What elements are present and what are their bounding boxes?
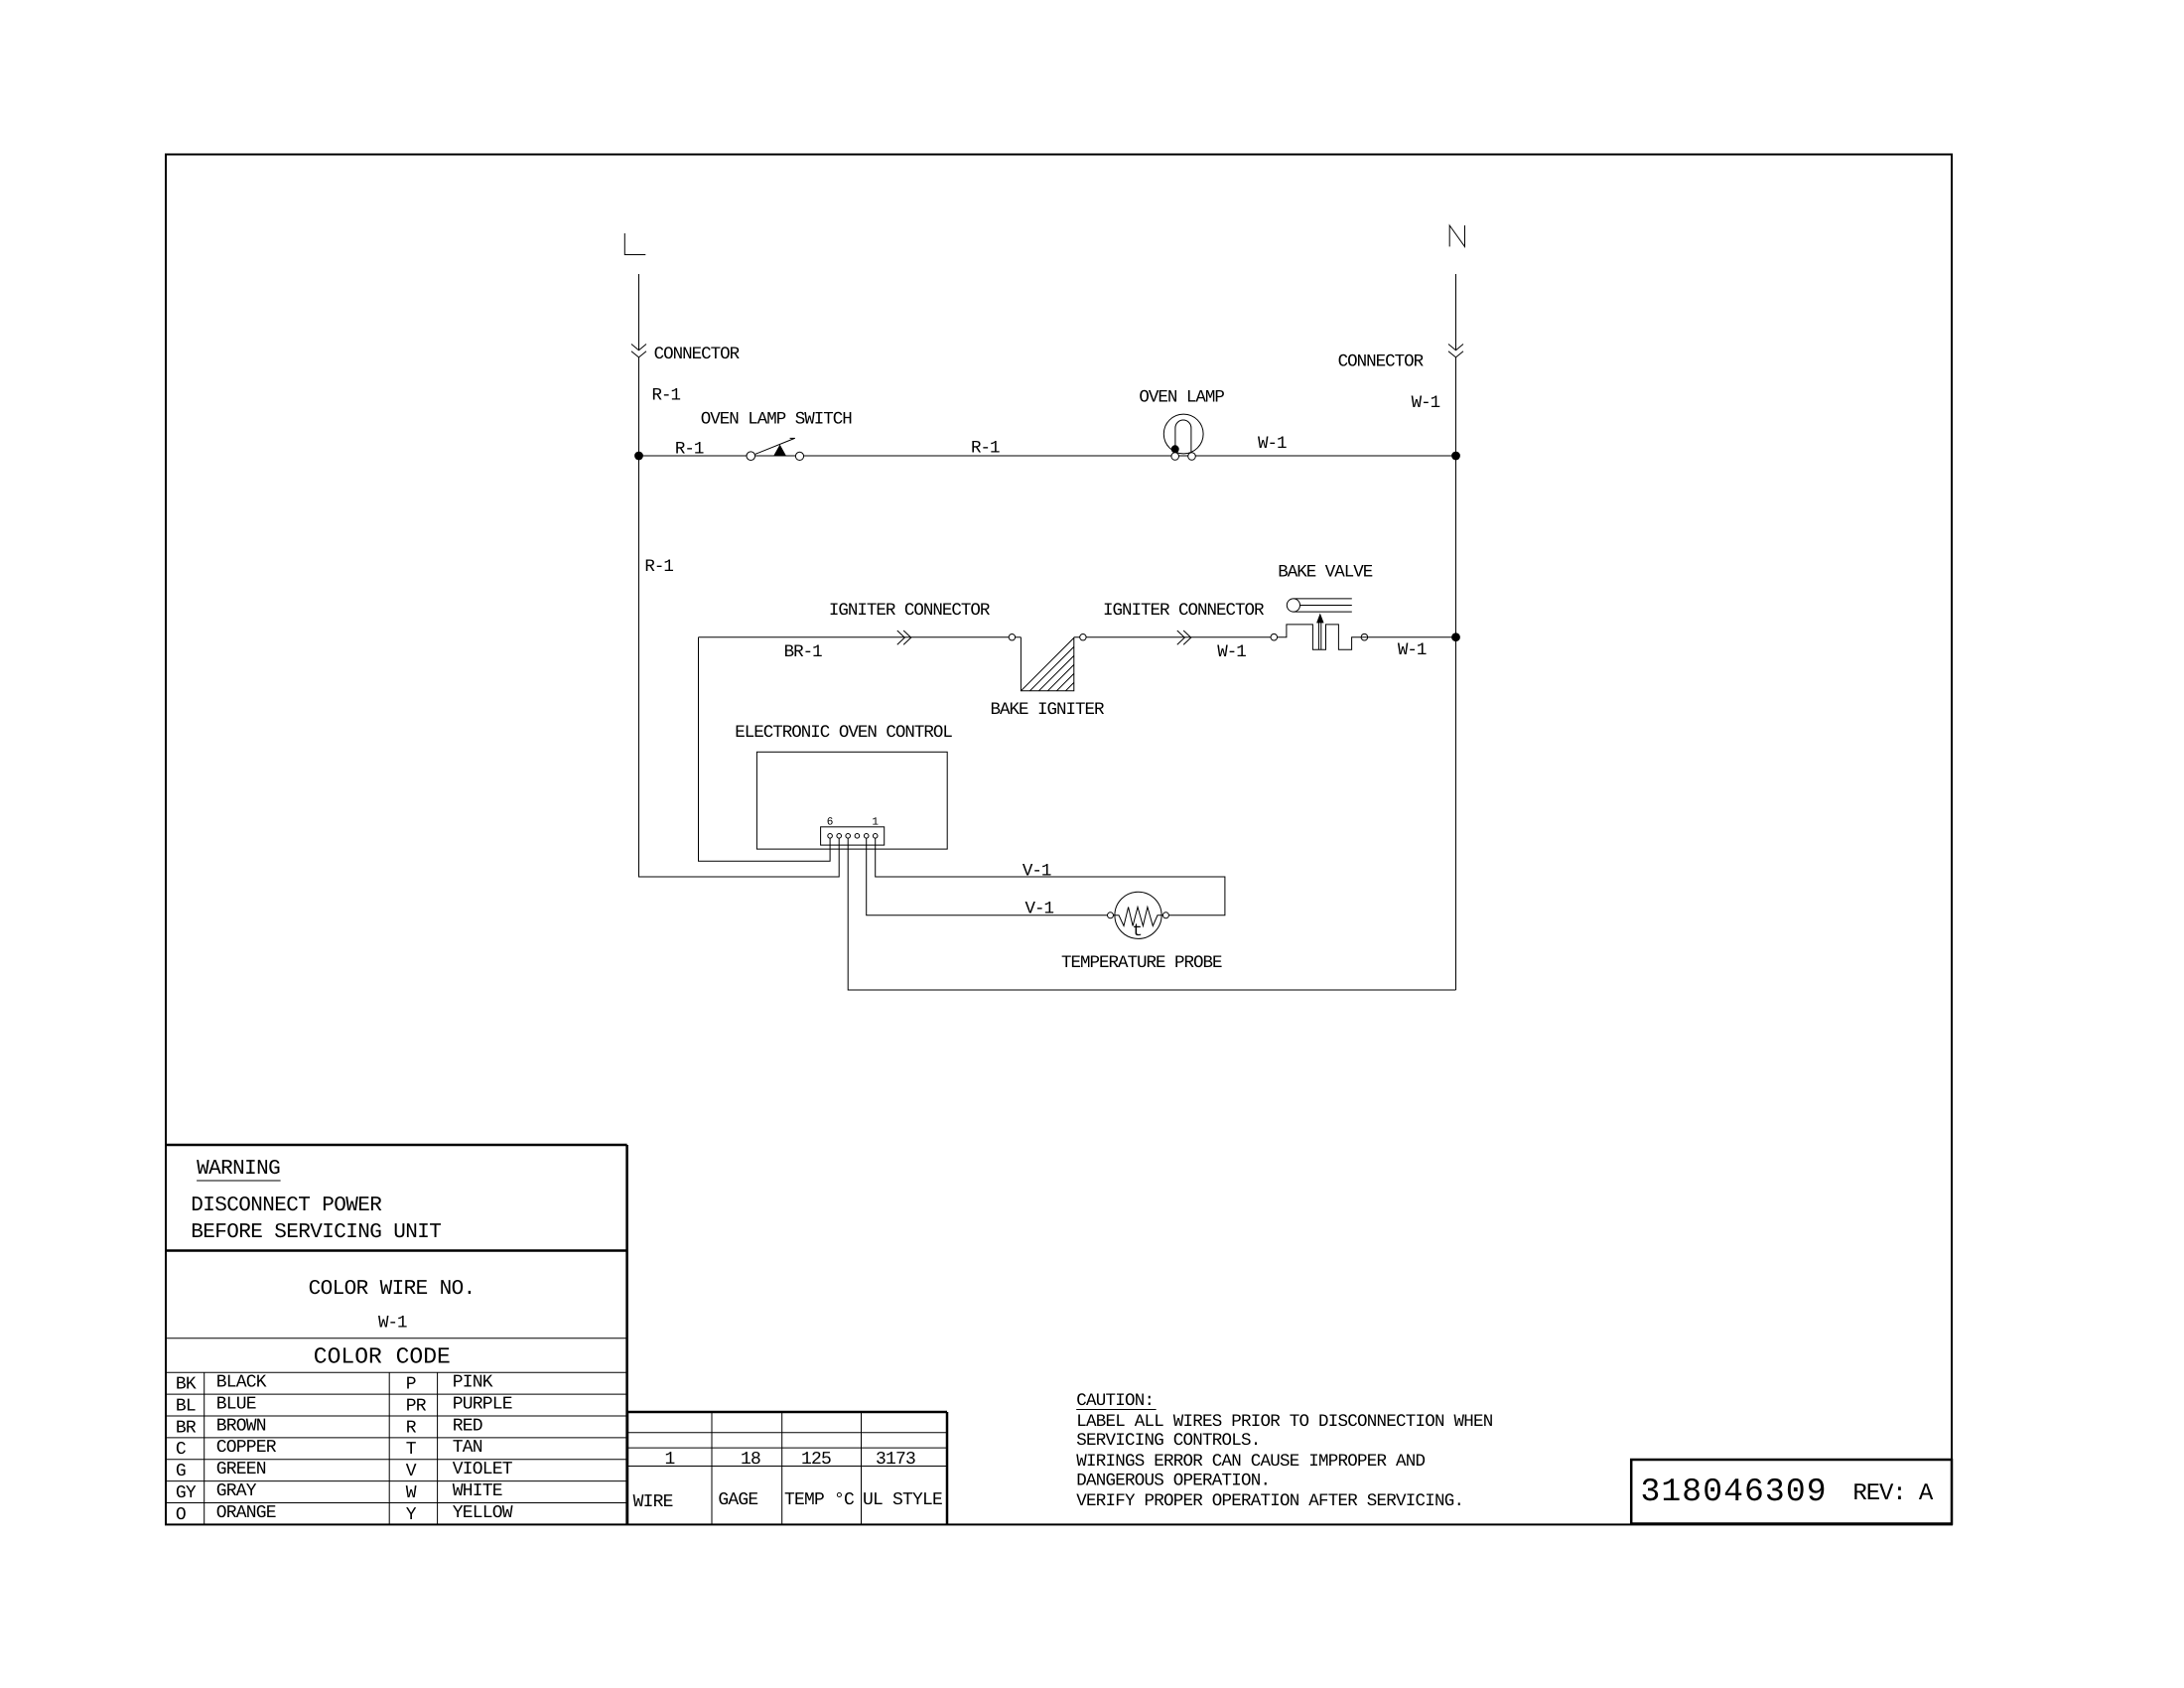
svg-text:GRAY: GRAY bbox=[216, 1481, 257, 1501]
wire L drop lower segment to node bbox=[638, 357, 640, 456]
title block box bbox=[1631, 1460, 1952, 1524]
pin circles J1 pins 6..1 bbox=[828, 834, 878, 839]
svg-text:1: 1 bbox=[664, 1450, 674, 1470]
svg-text:PURPLE: PURPLE bbox=[453, 1395, 512, 1415]
svg-text:TAN: TAN bbox=[453, 1438, 482, 1458]
valve arrow head bbox=[1316, 614, 1324, 624]
switch S1 oven lamp switch bbox=[747, 438, 804, 460]
junction node valve at N rail bbox=[1451, 633, 1460, 641]
wire spec table outer border bbox=[627, 1412, 947, 1524]
wire N drop lower segment to node bbox=[1455, 357, 1457, 456]
svg-text:VERIFY PROPER OPERATION AFTER: VERIFY PROPER OPERATION AFTER SERVICING. bbox=[1076, 1491, 1463, 1511]
svg-text:VIOLET: VIOLET bbox=[453, 1460, 513, 1479]
svg-text:RED: RED bbox=[453, 1416, 482, 1436]
svg-text:BAKE IGNITER: BAKE IGNITER bbox=[991, 700, 1106, 720]
color code table column rules bbox=[205, 1372, 438, 1524]
warning box borders bbox=[166, 1145, 627, 1524]
wire main horizontal run L to N bbox=[639, 455, 1456, 457]
svg-text:SERVICING CONTROLS.: SERVICING CONTROLS. bbox=[1076, 1431, 1260, 1451]
node N (neutral terminal) bbox=[1449, 225, 1464, 246]
svg-text:O: O bbox=[176, 1505, 186, 1525]
svg-text:REV: A: REV: A bbox=[1852, 1480, 1934, 1507]
svg-text:W-1: W-1 bbox=[1412, 393, 1440, 413]
terminal circle igniter right bbox=[1080, 634, 1086, 640]
valve plunger stem bbox=[1318, 619, 1320, 650]
junction node at N rail bbox=[1451, 452, 1460, 461]
box U1 electronic oven control bbox=[756, 752, 947, 849]
svg-text:V-1: V-1 bbox=[1025, 900, 1054, 919]
connector J1 header on EOC bbox=[821, 827, 885, 845]
connector chevrons on N line bbox=[1448, 345, 1463, 357]
svg-text:BK: BK bbox=[176, 1375, 197, 1395]
color code table row rules bbox=[166, 1394, 627, 1502]
svg-text:GREEN: GREEN bbox=[216, 1460, 266, 1479]
svg-text:DISCONNECT POWER: DISCONNECT POWER bbox=[191, 1195, 382, 1217]
svg-text:UL STYLE: UL STYLE bbox=[863, 1490, 942, 1510]
connector igniter chevrons 2 bbox=[1177, 631, 1191, 644]
wire bottom run EOC pin 4 to N rail bbox=[848, 838, 1455, 990]
svg-text:PR: PR bbox=[406, 1397, 427, 1417]
svg-text:BLACK: BLACK bbox=[216, 1373, 267, 1393]
wire N rail lower segment bbox=[1455, 456, 1457, 990]
terminal circle igniter left bbox=[1009, 634, 1015, 640]
terminal circle valve right bbox=[1361, 633, 1368, 640]
svg-text:R: R bbox=[406, 1418, 417, 1438]
svg-text:V: V bbox=[406, 1462, 417, 1481]
svg-text:PINK: PINK bbox=[453, 1373, 493, 1393]
svg-text:ELECTRONIC OVEN CONTROL: ELECTRONIC OVEN CONTROL bbox=[735, 723, 952, 743]
wire valve to N rail bbox=[1361, 636, 1456, 638]
resistor RT1 temperature probe bbox=[1108, 892, 1169, 938]
svg-text:t: t bbox=[1133, 921, 1143, 941]
svg-text:R-1: R-1 bbox=[675, 440, 704, 460]
svg-text:DANGEROUS OPERATION.: DANGEROUS OPERATION. bbox=[1076, 1471, 1270, 1490]
connector chevrons on L line bbox=[631, 345, 646, 357]
warning underline bbox=[197, 1180, 281, 1182]
svg-text:IGNITER CONNECTOR: IGNITER CONNECTOR bbox=[829, 601, 991, 621]
svg-text:T: T bbox=[406, 1440, 417, 1460]
svg-text:YELLOW: YELLOW bbox=[453, 1503, 513, 1523]
caution note text bbox=[1076, 1391, 1493, 1511]
caution underline bbox=[1076, 1409, 1156, 1411]
svg-text:TEMP °C: TEMP °C bbox=[784, 1490, 855, 1510]
svg-text:W-1: W-1 bbox=[1258, 434, 1287, 454]
svg-text:WHITE: WHITE bbox=[453, 1481, 502, 1501]
svg-text:CAUTION:: CAUTION: bbox=[1076, 1391, 1154, 1411]
wire spec table column rules bbox=[712, 1412, 862, 1524]
wire EOC pin 1 to probe right bbox=[876, 838, 1225, 915]
svg-text:C: C bbox=[176, 1440, 187, 1460]
svg-text:BEFORE SERVICING UNIT: BEFORE SERVICING UNIT bbox=[191, 1221, 441, 1244]
svg-text:W-1: W-1 bbox=[1398, 640, 1427, 660]
svg-text:BL: BL bbox=[176, 1397, 196, 1417]
wire igniter row horizontal bbox=[699, 636, 1022, 638]
svg-text:W-1: W-1 bbox=[378, 1314, 407, 1334]
wire igniter to valve bbox=[1074, 636, 1278, 638]
svg-text:1: 1 bbox=[872, 817, 879, 829]
color code header rule bbox=[166, 1337, 627, 1339]
lamp DS1 oven lamp bbox=[1163, 414, 1203, 460]
svg-text:OVEN LAMP: OVEN LAMP bbox=[1139, 388, 1224, 408]
wire L drop upper segment bbox=[638, 274, 640, 351]
sheet border frame bbox=[166, 155, 1952, 1525]
wire EOC pin 2 to probe left bbox=[867, 838, 1108, 915]
svg-text:IGNITER CONNECTOR: IGNITER CONNECTOR bbox=[1103, 601, 1265, 621]
node L (line terminal) bbox=[624, 233, 645, 255]
heater E1 bake igniter body bbox=[1021, 637, 1073, 691]
bake igniter hatch lines bbox=[1021, 637, 1073, 690]
svg-text:GY: GY bbox=[176, 1483, 197, 1503]
svg-text:CONNECTOR: CONNECTOR bbox=[654, 345, 741, 364]
svg-text:CONNECTOR: CONNECTOR bbox=[1338, 352, 1425, 372]
svg-text:WARNING: WARNING bbox=[197, 1158, 280, 1181]
svg-text:BAKE VALVE: BAKE VALVE bbox=[1278, 563, 1373, 583]
svg-text:BR-1: BR-1 bbox=[784, 642, 823, 662]
color code table top rule bbox=[166, 1371, 627, 1373]
svg-text:R-1: R-1 bbox=[644, 557, 673, 577]
svg-text:WIRE: WIRE bbox=[633, 1492, 673, 1512]
svg-text:V-1: V-1 bbox=[1023, 862, 1051, 882]
junction node at L rail bbox=[634, 452, 643, 461]
valve gas pipe inlet circle bbox=[1287, 599, 1299, 612]
svg-text:P: P bbox=[406, 1375, 416, 1395]
svg-text:OVEN LAMP SWITCH: OVEN LAMP SWITCH bbox=[701, 410, 853, 430]
color code table cell text bbox=[176, 1373, 513, 1525]
svg-text:TEMPERATURE PROBE: TEMPERATURE PROBE bbox=[1061, 953, 1222, 973]
svg-text:318046309: 318046309 bbox=[1641, 1474, 1828, 1510]
svg-text:COLOR CODE: COLOR CODE bbox=[314, 1344, 451, 1370]
svg-text:W-1: W-1 bbox=[1217, 642, 1246, 662]
wire spec table row rules bbox=[627, 1433, 947, 1467]
terminal circle valve left bbox=[1271, 633, 1278, 640]
wire spec table cell text bbox=[633, 1450, 942, 1512]
svg-text:BROWN: BROWN bbox=[216, 1416, 266, 1436]
svg-text:W: W bbox=[406, 1483, 417, 1503]
svg-text:18: 18 bbox=[741, 1450, 760, 1470]
connector igniter chevrons 1 bbox=[897, 631, 911, 644]
valve V1 bake valve coil body bbox=[1278, 625, 1361, 649]
svg-text:G: G bbox=[176, 1462, 186, 1481]
wire N drop upper segment bbox=[1455, 274, 1457, 351]
svg-text:GAGE: GAGE bbox=[718, 1490, 757, 1510]
valve gas pipe lines bbox=[1294, 599, 1352, 612]
svg-text:R-1: R-1 bbox=[652, 386, 681, 406]
svg-text:COLOR WIRE NO.: COLOR WIRE NO. bbox=[309, 1278, 476, 1301]
svg-text:LABEL ALL WIRES PRIOR TO DISCO: LABEL ALL WIRES PRIOR TO DISCONNECTION W… bbox=[1076, 1412, 1493, 1432]
svg-text:COPPER: COPPER bbox=[216, 1438, 277, 1458]
svg-text:BLUE: BLUE bbox=[216, 1395, 256, 1415]
svg-text:R-1: R-1 bbox=[971, 439, 1000, 459]
wire igniter branch from EOC pin 6 bbox=[699, 637, 831, 862]
svg-text:WIRINGS ERROR CAN CAUSE IMPROP: WIRINGS ERROR CAN CAUSE IMPROPER AND bbox=[1076, 1452, 1425, 1472]
svg-text:125: 125 bbox=[801, 1450, 831, 1470]
wire L rail down and over to EOC pin 5 bbox=[639, 456, 840, 877]
svg-text:6: 6 bbox=[827, 817, 834, 829]
svg-text:ORANGE: ORANGE bbox=[216, 1503, 276, 1523]
svg-text:3173: 3173 bbox=[876, 1450, 915, 1470]
svg-text:Y: Y bbox=[406, 1505, 417, 1525]
svg-text:BR: BR bbox=[176, 1418, 197, 1438]
